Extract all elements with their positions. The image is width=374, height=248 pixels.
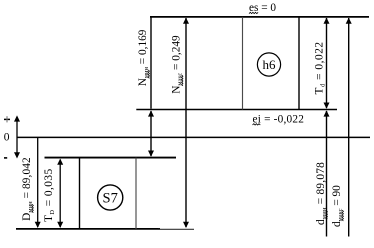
svg-text:0: 0 [4, 132, 10, 144]
svg-text:h6: h6 [263, 57, 277, 72]
svg-text:ei = -0,022: ei = -0,022 [253, 113, 305, 125]
svg-text:S7: S7 [103, 190, 118, 206]
